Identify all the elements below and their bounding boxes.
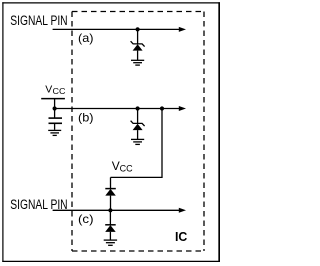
svg-text:V: V <box>45 84 52 96</box>
wire signal pin (a) <box>53 28 180 30</box>
capacitor bypass (b) <box>49 118 63 123</box>
wire Vcc line (b) <box>55 108 180 110</box>
Vcc rail bar (b) <box>41 98 65 100</box>
ground (c) <box>104 240 117 245</box>
ground (a) <box>131 60 144 65</box>
svg-text:(b): (b) <box>78 111 94 125</box>
node junction (c) <box>108 208 112 212</box>
wire Vcc feed down to (c) <box>111 109 163 178</box>
wire zener lead (a) <box>137 29 139 44</box>
wire zener lead (b) <box>137 109 139 124</box>
svg-text:(a): (a) <box>78 31 94 45</box>
svg-text:(c): (c) <box>78 212 94 226</box>
ground capacitor (b) <box>48 130 61 135</box>
node feed junction (b) <box>160 106 164 110</box>
wire diode to Vcc lead (c) <box>110 177 112 188</box>
svg-text:CC: CC <box>53 87 66 96</box>
arrowhead (c) <box>179 208 186 213</box>
node junction (a) <box>136 27 140 31</box>
label Vcc (b) <box>45 84 66 97</box>
wire diode to ground lead (c) <box>109 210 111 225</box>
label Vcc (c) <box>112 159 133 174</box>
svg-text:SIGNAL PIN: SIGNAL PIN <box>10 13 67 28</box>
figure outer frame <box>2 2 220 262</box>
diode to Vcc (c) <box>105 189 116 211</box>
node zener junction (b) <box>136 106 140 110</box>
wire signal pin (c) <box>53 209 180 211</box>
wire capacitor to ground (b) <box>54 123 56 130</box>
node Vcc junction (b) <box>53 106 57 110</box>
IC boundary dashed box <box>72 12 204 252</box>
wire Vcc lead (b) <box>54 99 56 109</box>
ground zener (b) <box>131 139 144 144</box>
svg-text:IC: IC <box>175 229 188 244</box>
diode from ground (c) <box>105 225 116 240</box>
arrowhead (a) <box>179 27 186 32</box>
wire capacitor lead (b) <box>54 109 56 118</box>
svg-text:CC: CC <box>120 164 133 174</box>
zener diode (b) <box>131 121 145 140</box>
arrowhead (b) <box>179 106 186 111</box>
zener diode (a) <box>131 41 145 60</box>
